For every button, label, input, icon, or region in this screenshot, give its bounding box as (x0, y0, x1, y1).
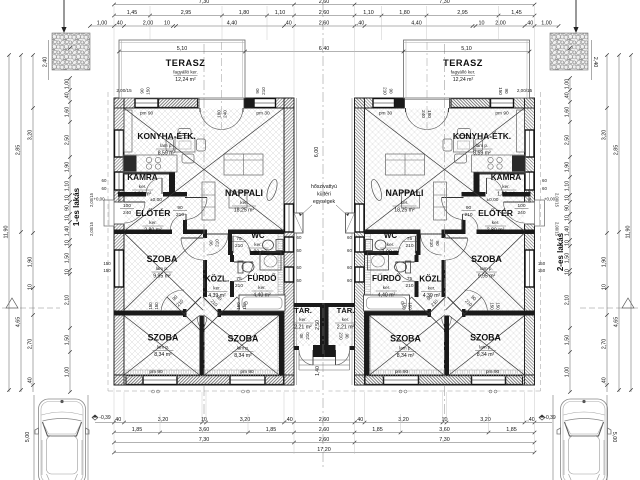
kamra right wall (169, 172, 175, 197)
steps below tár (299, 359, 324, 361)
bathtub (239, 295, 285, 311)
svg-text:lam p.: lam p. (156, 266, 169, 271)
svg-text:90: 90 (389, 88, 394, 94)
svg-text:+0,00: +0,00 (544, 197, 556, 202)
svg-text:2,00/15: 2,00/15 (555, 193, 560, 208)
svg-text:,40: ,40 (527, 417, 535, 423)
parking dimension right (606, 395, 608, 480)
bottom dimension row B (114, 432, 535, 434)
svg-text:210: 210 (339, 332, 344, 340)
svg-text:180: 180 (217, 110, 222, 118)
svg-text:1,10: 1,10 (564, 181, 570, 192)
kitchen sink unit dark (124, 156, 137, 172)
left unit geometry (104, 40, 324, 420)
svg-text:1,00: 1,00 (564, 367, 570, 378)
svg-text:1,00: 1,00 (64, 79, 70, 90)
svg-text:10: 10 (27, 284, 33, 290)
svg-text:1,80 m²: 1,80 m² (382, 250, 400, 256)
svg-text:TÁR.: TÁR. (294, 306, 312, 315)
svg-text:60: 60 (102, 178, 107, 183)
svg-text:10: 10 (64, 269, 70, 275)
svg-text:lam p.: lam p. (479, 345, 492, 350)
svg-text:3,20: 3,20 (158, 417, 169, 423)
svg-text:60: 60 (542, 186, 547, 191)
svg-text:150: 150 (103, 268, 111, 273)
svg-text:2,70: 2,70 (601, 339, 607, 350)
svg-text:3,60: 3,60 (439, 427, 450, 433)
svg-text:2,80 m²: 2,80 m² (144, 228, 162, 234)
tár bottom wall (294, 346, 299, 350)
svg-text:1,45: 1,45 (127, 10, 138, 16)
svg-text:4,40 m²: 4,40 m² (253, 293, 271, 299)
svg-text:210: 210 (235, 283, 243, 289)
svg-text:1,80: 1,80 (239, 10, 250, 16)
svg-text:1,80: 1,80 (399, 10, 410, 16)
svg-text:2,85: 2,85 (15, 145, 21, 156)
svg-text:kültéri: kültéri (317, 192, 331, 198)
svg-text:210: 210 (176, 212, 184, 218)
bottom wall pier outlines (126, 376, 143, 385)
svg-text:8,59 m²: 8,59 m² (158, 151, 176, 157)
svg-text:10: 10 (601, 284, 607, 290)
szoba1 X diagonals (124, 233, 203, 310)
right margin dimension columns (630, 55, 632, 392)
center step pier (313, 345, 324, 357)
svg-text:,40: ,40 (526, 20, 534, 26)
svg-text:60: 60 (347, 278, 352, 283)
svg-text:10: 10 (64, 240, 70, 246)
diagonal door szoba-br (203, 297, 220, 314)
svg-text:hőszivattyú: hőszivattyú (311, 184, 337, 190)
svg-text:240: 240 (223, 110, 228, 118)
svg-text:-0,39: -0,39 (99, 415, 111, 421)
window kitchen top W1 (135, 99, 158, 108)
svg-text:8,34 m²: 8,34 m² (397, 353, 415, 359)
svg-text:KONYHA-ÉTK.: KONYHA-ÉTK. (137, 130, 195, 141)
svg-text:KAMRA: KAMRA (127, 173, 158, 182)
datum triangle right (622, 298, 634, 308)
svg-text:210: 210 (405, 243, 413, 249)
svg-text:ker.: ker. (342, 317, 349, 322)
svg-text:TERASZ: TERASZ (166, 58, 206, 68)
svg-text:2,00/15: 2,00/15 (116, 88, 132, 93)
terrace door axis line (221, 42, 223, 129)
svg-text:±0,00: ±0,00 (150, 197, 162, 203)
black pier door-W2 (244, 98, 254, 107)
kamra door arc (161, 178, 163, 194)
svg-text:90: 90 (466, 205, 472, 211)
bottom dimension row D (114, 452, 535, 454)
kitchen tall cabinet (124, 110, 132, 152)
svg-text:SZOBA: SZOBA (228, 334, 259, 344)
svg-text:10: 10 (564, 215, 570, 221)
svg-text:75: 75 (407, 276, 413, 282)
exterior wall top (114, 98, 294, 108)
heat pump unit (294, 213, 303, 233)
svg-text:FÜRDŐ: FÜRDŐ (372, 272, 402, 283)
wc door arc (232, 236, 234, 253)
svg-text:240: 240 (123, 210, 131, 216)
svg-text:KAMRA: KAMRA (491, 173, 522, 182)
svg-text:2,60: 2,60 (319, 20, 330, 26)
svg-text:1,90: 1,90 (64, 162, 70, 173)
svg-text:10: 10 (564, 240, 570, 246)
bottom extension lines (113, 388, 115, 454)
svg-text:60: 60 (347, 248, 352, 253)
svg-text:2,40: 2,40 (43, 57, 49, 68)
konyha-nappali X diagonals (124, 108, 284, 231)
svg-text:WC: WC (384, 231, 398, 240)
washbasin (260, 252, 281, 270)
svg-text:5,10: 5,10 (461, 46, 472, 52)
svg-text:lam p.: lam p. (160, 143, 173, 148)
exterior wall bottom (114, 375, 294, 385)
svg-text:1,45: 1,45 (511, 10, 522, 16)
svg-text:lam p.: lam p. (476, 143, 489, 148)
svg-text:2,60: 2,60 (319, 0, 330, 5)
svg-text:pm 90: pm 90 (495, 111, 509, 117)
svg-text:90: 90 (345, 334, 350, 339)
svg-text:11,90: 11,90 (3, 225, 9, 238)
svg-text:,40: ,40 (357, 20, 365, 26)
svg-text:1,40: 1,40 (64, 226, 70, 237)
svg-text:90: 90 (140, 88, 145, 94)
car left (35, 399, 89, 480)
svg-text:100: 100 (123, 203, 131, 209)
stove burners (146, 157, 151, 162)
svg-text:4,65: 4,65 (613, 317, 619, 328)
svg-text:60: 60 (297, 265, 302, 270)
svg-text:1,00: 1,00 (97, 20, 108, 26)
svg-text:150: 150 (538, 268, 546, 273)
svg-text:150: 150 (103, 261, 111, 266)
svg-text:60: 60 (297, 278, 302, 283)
left margin dimension columns (8, 55, 10, 392)
svg-text:,40: ,40 (27, 377, 33, 385)
svg-text:TERASZ: TERASZ (443, 58, 483, 68)
kamra top wall (123, 172, 175, 175)
szoba right lining (279, 316, 284, 376)
svg-text:3,20: 3,20 (240, 417, 251, 423)
svg-text:10: 10 (164, 20, 170, 26)
svg-text:150: 150 (146, 87, 151, 95)
car right (557, 399, 611, 480)
svg-text:90: 90 (255, 88, 260, 94)
svg-text:2,95: 2,95 (181, 10, 192, 16)
svg-text:1,90: 1,90 (564, 162, 570, 173)
svg-text:7,30: 7,30 (439, 437, 450, 443)
svg-text:5,00: 5,00 (25, 432, 31, 443)
section arrow left (63, 0, 65, 29)
wc toilet (263, 240, 274, 250)
svg-text:ker.: ker. (139, 184, 146, 189)
svg-text:,40: ,40 (356, 417, 364, 423)
svg-text:18,25 m²: 18,25 m² (234, 208, 255, 214)
svg-text:150: 150 (154, 302, 159, 310)
svg-text:1,00: 1,00 (64, 367, 70, 378)
kitchen counter (123, 155, 177, 172)
svg-text:90: 90 (564, 205, 570, 211)
svg-text:SZOBA: SZOBA (148, 333, 179, 343)
svg-text:2,80 m²: 2,80 m² (487, 228, 505, 234)
wc bottom wall (228, 251, 233, 255)
middle wall segment a (114, 230, 172, 235)
svg-text:egységek: egységek (313, 199, 336, 205)
svg-text:KONYHA-ÉTK.: KONYHA-ÉTK. (453, 130, 511, 141)
svg-text:150: 150 (538, 261, 546, 266)
svg-text:ker.: ker. (299, 317, 306, 322)
svg-text:3,20: 3,20 (398, 417, 409, 423)
svg-text:2,50: 2,50 (315, 320, 321, 330)
svg-text:NAPPALI: NAPPALI (225, 188, 263, 198)
window fürdő right W10 (285, 267, 294, 282)
datum triangle left (6, 298, 18, 308)
svg-text:2,10: 2,10 (564, 295, 570, 306)
svg-text:90: 90 (299, 333, 304, 338)
svg-text:60: 60 (347, 235, 352, 240)
svg-text:1,40: 1,40 (315, 366, 321, 376)
svg-text:1,00: 1,00 (541, 20, 552, 26)
svg-text:75: 75 (236, 236, 242, 242)
szoba bottom-right X diagonals (205, 316, 280, 376)
svg-text:ker.: ker. (492, 220, 499, 225)
svg-text:WC: WC (251, 231, 265, 240)
svg-text:pm 90: pm 90 (149, 369, 163, 375)
fürdő toilet (242, 262, 254, 272)
svg-text:4,65: 4,65 (15, 317, 21, 328)
fürdő door arc (234, 261, 253, 263)
top dimension row 3 (90, 25, 558, 27)
előtér-szoba door arc (185, 214, 187, 230)
svg-text:90: 90 (209, 240, 214, 246)
svg-text:2,00: 2,00 (143, 20, 154, 26)
svg-text:1,50: 1,50 (64, 253, 70, 264)
svg-text:FÜRDŐ: FÜRDŐ (247, 272, 277, 283)
section arrow right (575, 0, 577, 29)
window szoba bottom W6 (143, 376, 177, 385)
svg-text:10: 10 (479, 20, 485, 26)
bottom dimension row A (95, 422, 552, 424)
svg-text:SZOBA: SZOBA (147, 254, 178, 264)
svg-text:60: 60 (297, 235, 302, 240)
diagonal door szoba-bl (184, 297, 201, 314)
svg-text:60: 60 (347, 265, 352, 270)
svg-text:2,60: 2,60 (319, 427, 330, 433)
svg-text:lam p.: lam p. (237, 346, 250, 351)
svg-text:1,90: 1,90 (601, 257, 607, 268)
svg-text:1,60: 1,60 (64, 107, 70, 118)
svg-text:KÖZL.: KÖZL. (419, 274, 444, 284)
svg-text:3,20: 3,20 (480, 417, 491, 423)
svg-text:90: 90 (435, 240, 440, 246)
plant (265, 178, 279, 201)
svg-text:150: 150 (496, 302, 501, 310)
svg-text:2,21 m²: 2,21 m² (337, 325, 355, 331)
svg-text:10: 10 (64, 195, 70, 201)
svg-text:210: 210 (305, 332, 310, 340)
svg-text:7,30: 7,30 (439, 0, 450, 5)
gravel patch right (550, 33, 588, 70)
parking dimension left (33, 395, 35, 480)
svg-text:1,85: 1,85 (506, 427, 517, 433)
entry exterior step (104, 200, 114, 226)
svg-text:2-es lakás: 2-es lakás (556, 232, 565, 271)
svg-text:pm 30: pm 30 (379, 111, 393, 117)
előtér/nappali wall (183, 220, 187, 234)
svg-text:210: 210 (215, 239, 220, 247)
svg-text:pm 90: pm 90 (486, 369, 500, 375)
svg-text:150: 150 (236, 302, 241, 310)
svg-text:6,00: 6,00 (314, 147, 320, 158)
svg-text:1,00: 1,00 (564, 79, 570, 90)
svg-text:2,50: 2,50 (564, 135, 570, 146)
svg-text:pm 90: pm 90 (117, 189, 123, 203)
svg-text:lam p.: lam p. (399, 346, 412, 351)
szoba divider wall (200, 316, 205, 376)
svg-text:10: 10 (564, 269, 570, 275)
svg-text:3,20: 3,20 (27, 130, 33, 141)
svg-text:1-es lakás: 1-es lakás (72, 187, 81, 226)
svg-text:,40: ,40 (114, 417, 122, 423)
svg-text:60: 60 (102, 186, 107, 191)
svg-text:ELŐTÉR: ELŐTÉR (136, 207, 172, 218)
svg-text:SZOBA: SZOBA (471, 254, 502, 264)
right unit geometry (mirrored) (324, 40, 544, 420)
svg-text:12,24 m²: 12,24 m² (175, 77, 196, 83)
svg-text:,40: ,40 (64, 92, 70, 100)
svg-text:ker.: ker. (254, 242, 261, 247)
svg-text:7,30: 7,30 (199, 0, 210, 5)
svg-text:1,50: 1,50 (64, 335, 70, 346)
terrace door opening (199, 97, 244, 108)
svg-text:1,90: 1,90 (27, 257, 33, 268)
svg-text:5,00: 5,00 (611, 432, 617, 443)
svg-text:8,34 m²: 8,34 m² (154, 352, 172, 358)
top wall pier outline (159, 99, 198, 108)
dining table (175, 138, 195, 152)
svg-text:1,10: 1,10 (363, 10, 374, 16)
svg-text:100: 100 (517, 203, 525, 209)
svg-text:2,00/15: 2,00/15 (89, 221, 94, 236)
svg-text:2,95: 2,95 (457, 10, 468, 16)
svg-text:6,40: 6,40 (319, 46, 330, 52)
wall lining bottom (124, 370, 284, 377)
svg-text:1,50: 1,50 (564, 253, 570, 264)
svg-text:9,95 m²: 9,95 m² (478, 274, 496, 280)
svg-text:1,10: 1,10 (64, 181, 70, 192)
svg-text:210: 210 (261, 87, 266, 95)
tár door arc (312, 350, 314, 365)
svg-text:ker.: ker. (383, 285, 390, 290)
svg-text:7,30: 7,30 (199, 437, 210, 443)
svg-text:4,40: 4,40 (227, 20, 238, 26)
svg-text:1,10: 1,10 (275, 10, 286, 16)
wall lining right (278, 234, 284, 375)
svg-text:lam p.: lam p. (157, 345, 170, 350)
svg-text:ELŐTÉR: ELŐTÉR (478, 207, 514, 218)
svg-text:2,60: 2,60 (319, 10, 330, 16)
unit axis line (203, 44, 205, 420)
window nappali right W11 (285, 204, 294, 232)
svg-text:4,40 m²: 4,40 m² (378, 293, 396, 299)
svg-text:2,10: 2,10 (64, 295, 70, 306)
svg-text:210: 210 (235, 243, 243, 249)
svg-text:1,85: 1,85 (266, 427, 277, 433)
svg-text:2,40: 2,40 (592, 57, 598, 68)
svg-text:150: 150 (242, 302, 247, 310)
svg-text:2,50: 2,50 (64, 135, 70, 146)
svg-text:240: 240 (421, 110, 426, 118)
svg-text:,40: ,40 (564, 92, 570, 100)
svg-text:12,24 m²: 12,24 m² (453, 77, 474, 83)
svg-text:1,85: 1,85 (372, 427, 383, 433)
nappali-közl door arc (207, 233, 228, 235)
svg-text:ker.: ker. (258, 285, 265, 290)
svg-text:±0,00: ±0,00 (487, 197, 499, 203)
svg-text:KÖZL.: KÖZL. (205, 274, 230, 284)
közl left wall (203, 234, 207, 238)
entry door opening (113, 202, 124, 224)
svg-text:210: 210 (464, 212, 472, 218)
svg-text:11,90: 11,90 (625, 225, 631, 238)
entry door leaf and arc (124, 201, 145, 203)
svg-text:,40: ,40 (115, 20, 123, 26)
svg-text:18,25 m²: 18,25 m² (394, 208, 415, 214)
lower wall segment a (114, 311, 183, 316)
svg-text:180: 180 (427, 110, 432, 118)
exterior cladding line right (296, 98, 298, 385)
top dimension row 2 (114, 15, 535, 17)
svg-text:150: 150 (402, 302, 407, 310)
szoba1 door arc (181, 237, 203, 239)
svg-text:90: 90 (64, 205, 70, 211)
svg-text:90: 90 (177, 205, 183, 211)
svg-text:1,60: 1,60 (564, 107, 570, 118)
window nappali top W2 (254, 99, 276, 108)
svg-text:fagyálló ker.: fagyálló ker. (451, 70, 476, 75)
middle wall segment c (228, 230, 284, 235)
svg-text:ker.: ker. (213, 286, 220, 291)
svg-text:8,34 m²: 8,34 m² (477, 352, 495, 358)
svg-text:-0,39: -0,39 (544, 415, 556, 421)
dining chairs (178, 129, 191, 136)
storage TÁR floor (294, 307, 320, 346)
svg-text:,40: ,40 (284, 20, 292, 26)
svg-text:2,21 m²: 2,21 m² (294, 325, 312, 331)
door jamb nubs (183, 309, 187, 317)
tár right wall (320, 307, 324, 350)
svg-text:SZOBA: SZOBA (390, 334, 421, 344)
svg-text:pm 90: pm 90 (526, 189, 532, 203)
lower wall segment c (221, 311, 284, 316)
top extension lines (113, 6, 115, 40)
svg-text:1,80 m²: 1,80 m² (249, 250, 267, 256)
svg-text:,40: ,40 (601, 377, 607, 385)
svg-text:17,20: 17,20 (317, 447, 331, 453)
sofa (224, 154, 263, 175)
svg-text:8,34 m²: 8,34 m² (234, 353, 252, 359)
svg-text:NAPPALI: NAPPALI (386, 188, 424, 198)
svg-text:210: 210 (405, 283, 413, 289)
svg-text:ker.: ker. (149, 220, 156, 225)
svg-text:90: 90 (504, 88, 509, 94)
svg-text:SZOBA: SZOBA (470, 333, 501, 343)
svg-text:60: 60 (542, 178, 547, 183)
tv cabinet (202, 182, 215, 220)
level diamonds (92, 415, 98, 420)
svg-text:4,40: 4,40 (411, 20, 422, 26)
svg-text:pm 90: pm 90 (140, 111, 154, 117)
